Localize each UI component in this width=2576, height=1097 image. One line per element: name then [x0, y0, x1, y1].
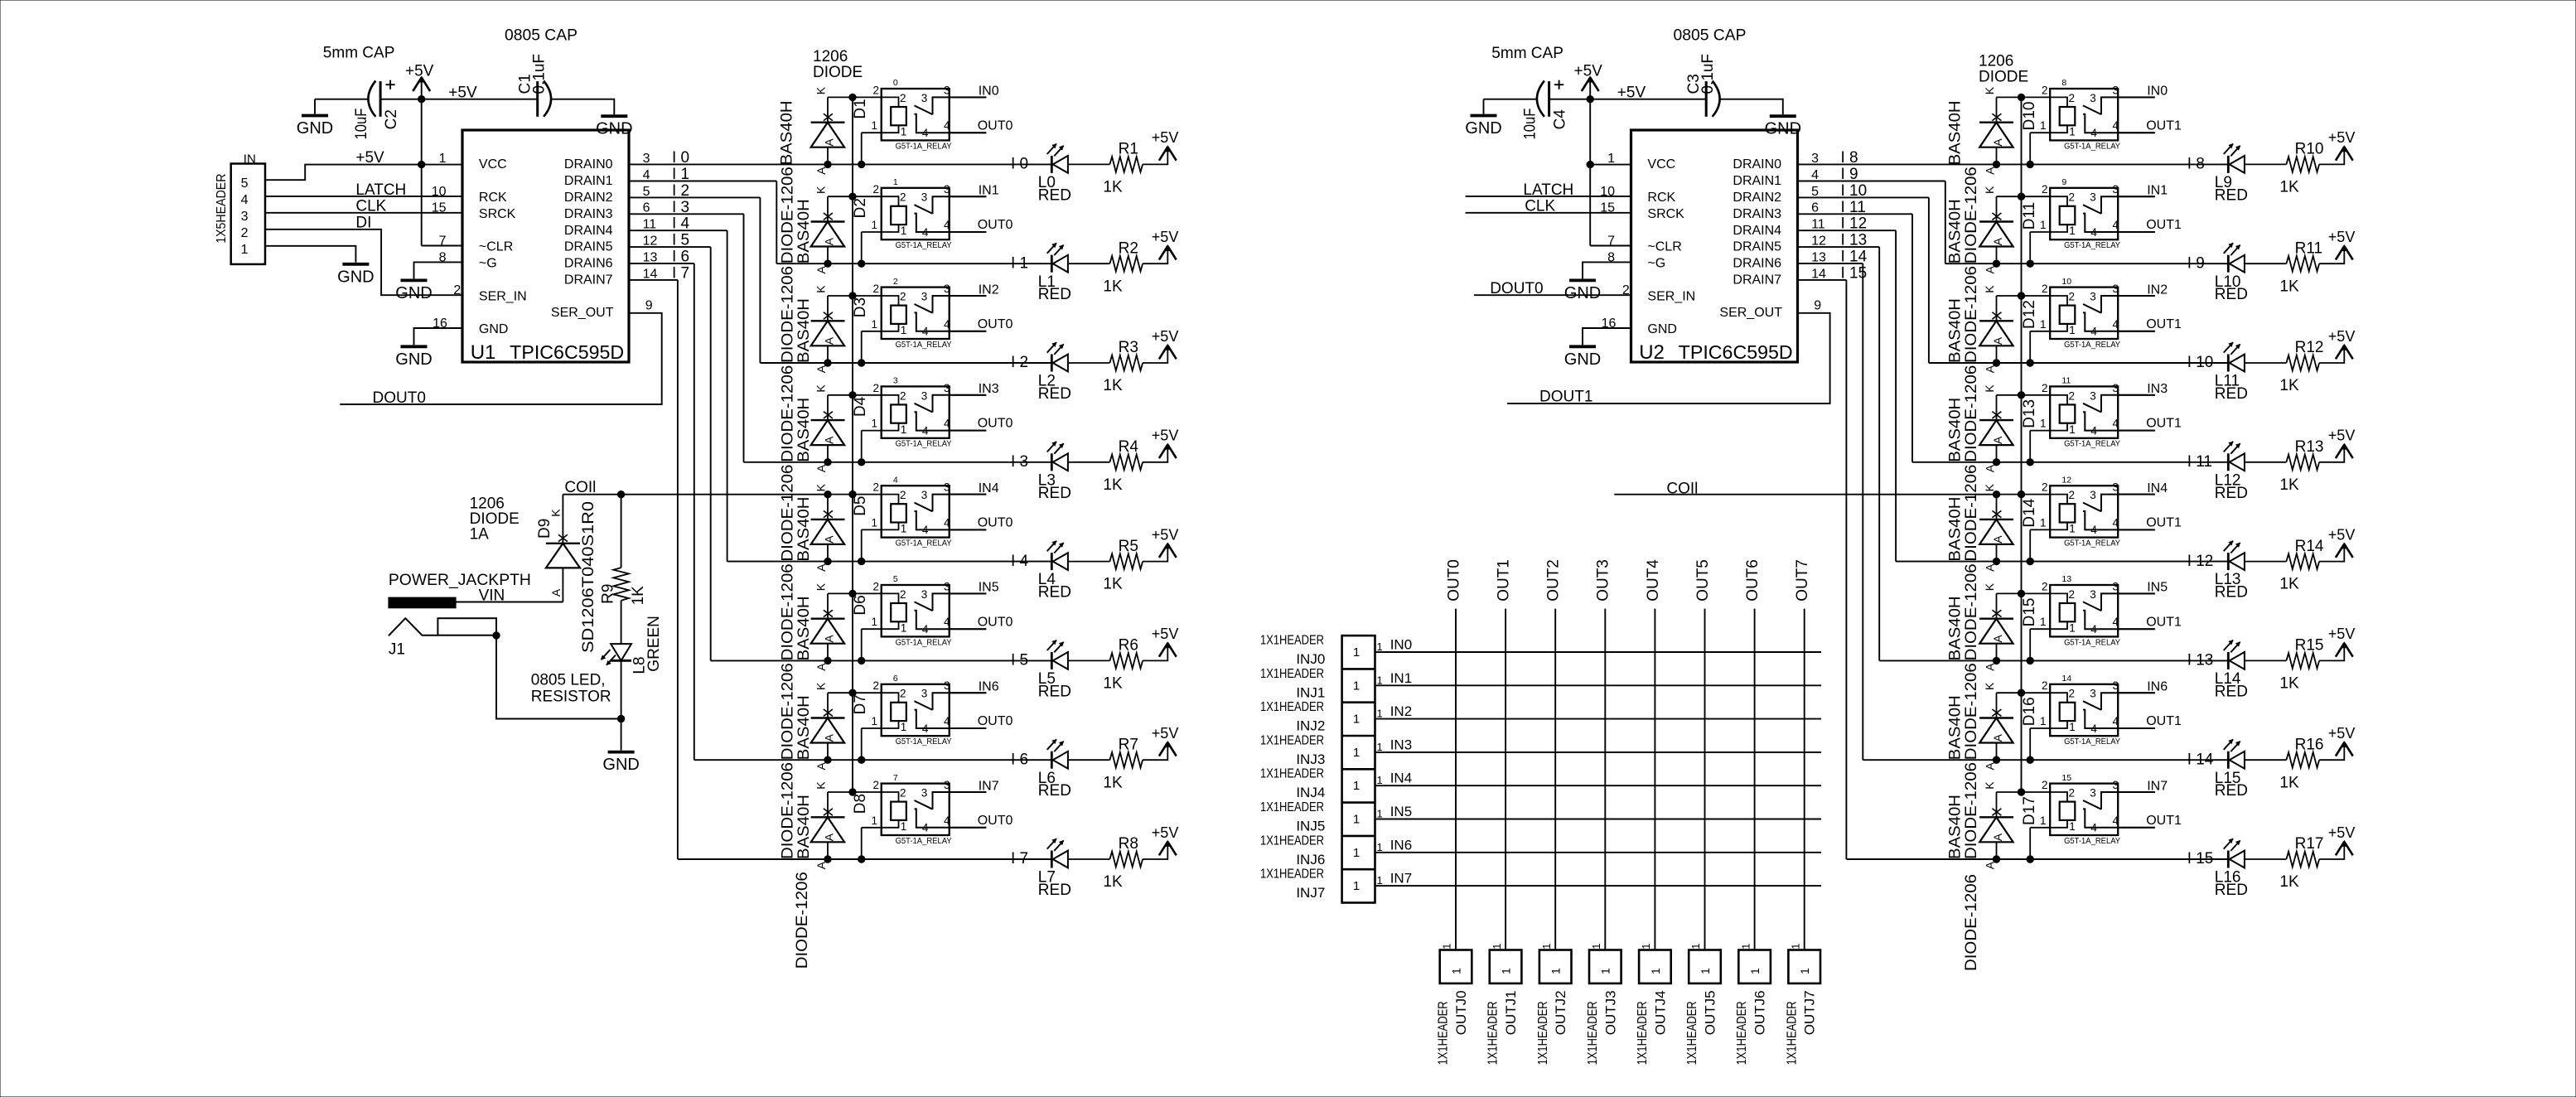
- svg-text:COIl: COIl: [564, 479, 596, 496]
- node +5V at VCC line: [418, 161, 425, 167]
- svg-text:7: 7: [1607, 234, 1615, 249]
- svg-text:1: 1: [1640, 944, 1652, 950]
- LED L10 with resistor R11 to +5V: [2215, 229, 2356, 303]
- svg-text:1: 1: [1491, 944, 1503, 950]
- wire OUT1 relay contact: [2118, 827, 2155, 829]
- wire drain net I 2: [629, 196, 760, 198]
- connector 1X1HEADER OUTJ4: [1639, 950, 1671, 983]
- svg-text:BAS40H: BAS40H: [795, 497, 813, 562]
- svg-text:L4: L4: [1038, 571, 1056, 588]
- svg-text:I 5: I 5: [1011, 652, 1028, 669]
- svg-text:1: 1: [1377, 874, 1383, 887]
- svg-text:~G: ~G: [479, 257, 497, 271]
- wire COIL right segment: [1614, 494, 1996, 495]
- diode D6 with relay 5: [811, 580, 987, 670]
- svg-text:DIODE-1206: DIODE-1206: [1963, 365, 1980, 462]
- svg-text:8: 8: [2061, 78, 2066, 88]
- diode D8 with relay 7: [811, 779, 987, 869]
- svg-text:L12: L12: [2215, 471, 2241, 489]
- svg-text:0805 CAP: 0805 CAP: [505, 27, 578, 44]
- svg-text:DIODE-1206: DIODE-1206: [794, 872, 811, 969]
- svg-text:1X1HEADER: 1X1HEADER: [1586, 1001, 1600, 1065]
- power +5V arrow left: [421, 78, 423, 99]
- capacitor C2 10uF polarized: [368, 80, 394, 117]
- svg-text:I 2: I 2: [672, 182, 689, 200]
- svg-text:IN4: IN4: [979, 481, 999, 495]
- wire U2 ~G stub to ground: [1583, 262, 1631, 278]
- LED L13 with resistor R14 to +5V: [2215, 526, 2356, 601]
- node COIL at right diode column: [1993, 491, 1999, 498]
- svg-text:IN5: IN5: [2147, 581, 2168, 595]
- svg-text:1X1HEADER: 1X1HEADER: [1735, 1001, 1749, 1065]
- LED L6 with resistor R7 to +5V: [1038, 725, 1179, 800]
- svg-text:1K: 1K: [630, 586, 647, 606]
- svg-text:IN2: IN2: [1390, 703, 1412, 719]
- wire OUT1 relay contact: [2118, 628, 2155, 630]
- svg-text:I 3: I 3: [672, 199, 689, 216]
- svg-text:R12: R12: [2295, 339, 2324, 356]
- svg-text:R6: R6: [1119, 637, 1138, 655]
- svg-text:I 14: I 14: [2187, 751, 2214, 768]
- svg-text:I 8: I 8: [1841, 149, 1858, 167]
- wire OUT0 relay contact: [950, 331, 987, 332]
- svg-text:1X1HEADER: 1X1HEADER: [1260, 767, 1324, 781]
- wire LATCH to U2 RCK: [1466, 196, 1631, 197]
- svg-text:1: 1: [1353, 713, 1360, 727]
- svg-text:11: 11: [1811, 218, 1825, 232]
- svg-text:OUT0: OUT0: [978, 218, 1013, 232]
- svg-text:GND: GND: [479, 322, 509, 336]
- svg-text:IN1: IN1: [979, 184, 999, 198]
- wire IN5 matrix row: [1375, 819, 1822, 820]
- svg-text:SER_IN: SER_IN: [479, 289, 527, 303]
- svg-text:1A: 1A: [470, 526, 490, 544]
- svg-text:OUT6: OUT6: [1744, 559, 1762, 602]
- svg-text:10uF: 10uF: [353, 109, 370, 140]
- svg-text:SER_IN: SER_IN: [1647, 289, 1695, 303]
- wire OUT1 relay contact: [2118, 430, 2155, 432]
- svg-text:L13: L13: [2215, 571, 2241, 588]
- svg-text:BAS40H: BAS40H: [795, 795, 813, 859]
- LED L16 with resistor R17 to +5V: [2215, 824, 2356, 899]
- svg-text:OUT7: OUT7: [1794, 559, 1811, 602]
- svg-text:L0: L0: [1038, 174, 1056, 191]
- svg-text:OUTJ6: OUTJ6: [1752, 990, 1768, 1035]
- svg-text:D7: D7: [852, 694, 869, 714]
- svg-text:1X1HEADER: 1X1HEADER: [1260, 867, 1324, 882]
- svg-text:0805 LED,: 0805 LED,: [531, 671, 606, 689]
- svg-text:1: 1: [1353, 746, 1360, 760]
- svg-text:2: 2: [893, 277, 898, 287]
- svg-text:D1: D1: [852, 99, 869, 118]
- svg-text:DRAIN2: DRAIN2: [1733, 191, 1781, 205]
- wire drain net I 11: [1798, 213, 1913, 215]
- svg-text:1: 1: [893, 177, 898, 187]
- svg-text:IN7: IN7: [1390, 871, 1412, 887]
- wire OUT1 relay contact: [2118, 132, 2155, 133]
- svg-text:DRAIN6: DRAIN6: [1733, 257, 1781, 271]
- svg-text:IN7: IN7: [2147, 779, 2168, 793]
- wire ~CLR stub: [422, 245, 462, 247]
- svg-text:0.1uF: 0.1uF: [530, 54, 548, 94]
- svg-text:6: 6: [1811, 201, 1819, 215]
- svg-text:+5V: +5V: [405, 63, 434, 80]
- svg-text:L9: L9: [2215, 174, 2232, 191]
- wire IN6 relay contact: [2118, 692, 2155, 693]
- wire OUT0 relay contact: [950, 827, 987, 829]
- svg-text:I 6: I 6: [1011, 751, 1028, 768]
- svg-text:OUT1: OUT1: [2146, 118, 2182, 133]
- svg-text:R16: R16: [2295, 736, 2324, 753]
- svg-text:INJ5: INJ5: [1296, 819, 1325, 834]
- wire CLK to U2 SRCK: [1466, 212, 1631, 214]
- svg-text:DIODE-1206: DIODE-1206: [1963, 465, 1980, 562]
- wire IN1 matrix row: [1375, 684, 1822, 686]
- wire OUT0 relay contact: [950, 727, 987, 729]
- pad POWER jack: [389, 597, 456, 608]
- svg-text:GND: GND: [1647, 322, 1677, 336]
- svg-text:IN6: IN6: [1390, 837, 1412, 853]
- svg-text:R11: R11: [2295, 239, 2322, 257]
- svg-text:DIODE-1206: DIODE-1206: [780, 465, 797, 562]
- svg-text:14: 14: [1811, 267, 1826, 281]
- svg-text:1X1HEADER: 1X1HEADER: [1260, 700, 1324, 714]
- svg-text:5mm CAP: 5mm CAP: [323, 44, 395, 61]
- ground GND header pin1: [337, 264, 374, 287]
- svg-text:L10: L10: [2215, 273, 2241, 291]
- LED L0 with resistor R1 to +5V: [1038, 129, 1179, 204]
- connector 1X1HEADER OUTJ6: [1738, 950, 1771, 983]
- diode D3 with relay 2: [811, 283, 987, 373]
- wire VIN to D9 anode: [456, 602, 563, 603]
- wire IN3 matrix row: [1375, 751, 1822, 753]
- LED L4 with resistor R5 to +5V: [1038, 526, 1179, 601]
- svg-text:4: 4: [643, 168, 650, 182]
- svg-text:1X1HEADER: 1X1HEADER: [1785, 1001, 1799, 1065]
- wire IN1 relay contact: [2118, 196, 2155, 197]
- svg-text:OUT0: OUT0: [978, 417, 1013, 431]
- svg-text:15: 15: [1600, 201, 1615, 215]
- svg-text:9: 9: [645, 298, 653, 312]
- svg-text:13: 13: [2061, 574, 2071, 584]
- svg-text:BAS40H: BAS40H: [1946, 497, 1964, 562]
- svg-text:I 7: I 7: [672, 264, 689, 282]
- LED L1 with resistor R2 to +5V: [1038, 229, 1179, 303]
- LED L15 with resistor R16 to +5V: [2215, 725, 2356, 800]
- svg-text:D12: D12: [2021, 300, 2038, 329]
- svg-text:0: 0: [893, 78, 898, 88]
- wire IN5 relay contact: [950, 592, 987, 594]
- LED L14 with resistor R15 to +5V: [2215, 626, 2356, 700]
- svg-text:L14: L14: [2215, 670, 2241, 688]
- LED L3 with resistor R4 to +5V: [1038, 428, 1179, 502]
- wire drain net I 5: [629, 246, 711, 248]
- svg-text:D15: D15: [2021, 598, 2038, 627]
- wire IN6 matrix row: [1375, 852, 1822, 853]
- svg-text:DRAIN0: DRAIN0: [564, 157, 613, 172]
- svg-text:9: 9: [1814, 298, 1821, 312]
- svg-text:2: 2: [453, 283, 461, 297]
- svg-text:IN: IN: [244, 152, 256, 166]
- diode D14 with relay 12: [1979, 481, 2155, 572]
- LED L2 with resistor R3 to +5V: [1038, 328, 1179, 403]
- svg-text:1X1HEADER: 1X1HEADER: [1536, 1001, 1550, 1065]
- svg-text:DRAIN3: DRAIN3: [564, 207, 613, 221]
- svg-text:DI: DI: [355, 214, 371, 231]
- wire IN7 relay contact: [950, 791, 987, 793]
- svg-text:K: K: [549, 509, 562, 517]
- svg-text:L16: L16: [2215, 869, 2241, 887]
- svg-text:R14: R14: [2295, 538, 2324, 555]
- diode D11 with relay 9: [1979, 183, 2155, 273]
- wire IN2 matrix row: [1375, 718, 1822, 720]
- wire IN0 matrix row: [1375, 651, 1822, 653]
- svg-text:I 0: I 0: [672, 149, 689, 167]
- svg-text:DRAIN4: DRAIN4: [564, 224, 613, 238]
- svg-text:L5: L5: [1038, 670, 1056, 688]
- svg-text:1: 1: [1377, 708, 1383, 720]
- IC U2 TPIC6C595D: [1631, 130, 1798, 362]
- svg-text:1: 1: [1353, 846, 1360, 860]
- wire OUT7 matrix column: [1804, 609, 1805, 950]
- svg-text:5: 5: [893, 574, 898, 584]
- svg-text:A: A: [549, 588, 563, 597]
- wire drain net I 4: [629, 230, 727, 231]
- svg-text:IN3: IN3: [979, 382, 999, 396]
- svg-text:D10: D10: [2021, 102, 2038, 131]
- svg-text:15: 15: [432, 201, 447, 215]
- svg-text:DRAIN6: DRAIN6: [564, 257, 613, 271]
- svg-text:DRAIN1: DRAIN1: [1733, 174, 1781, 188]
- wire drain net I 3: [629, 213, 744, 215]
- svg-text:DIODE-1206: DIODE-1206: [1963, 266, 1980, 363]
- svg-text:RCK: RCK: [479, 191, 507, 205]
- svg-text:INJ6: INJ6: [1296, 852, 1325, 867]
- svg-text:I 12: I 12: [1841, 215, 1868, 233]
- svg-text:6: 6: [893, 674, 898, 684]
- diode D2 with relay 1: [811, 183, 987, 273]
- wire IN4 relay contact: [950, 494, 987, 495]
- svg-text:OUT1: OUT1: [2146, 714, 2182, 728]
- svg-text:D3: D3: [852, 297, 869, 317]
- svg-text:D5: D5: [852, 496, 869, 516]
- svg-text:1: 1: [241, 243, 249, 257]
- svg-text:IN4: IN4: [2147, 481, 2168, 495]
- svg-text:R9: R9: [599, 584, 616, 604]
- wire drain net I 6: [629, 263, 694, 264]
- svg-text:I 10: I 10: [2187, 354, 2214, 371]
- svg-text:10uF: 10uF: [1521, 109, 1539, 140]
- svg-text:RCK: RCK: [1647, 191, 1675, 205]
- svg-text:BAS40H: BAS40H: [795, 298, 813, 363]
- svg-text:R7: R7: [1119, 736, 1138, 753]
- svg-text:INJ1: INJ1: [1296, 684, 1325, 700]
- IC U1 TPIC6C595D: [462, 130, 629, 362]
- diode D15 with relay 13: [1979, 580, 2155, 670]
- svg-text:TPIC6C595D: TPIC6C595D: [1679, 341, 1793, 363]
- svg-text:11: 11: [643, 218, 657, 232]
- svg-text:SRCK: SRCK: [479, 207, 516, 221]
- svg-text:CLK: CLK: [355, 198, 386, 215]
- svg-text:4: 4: [241, 193, 249, 207]
- svg-text:R8: R8: [1119, 835, 1138, 853]
- svg-text:COIl: COIl: [1666, 481, 1698, 498]
- svg-text:DIODE-1206: DIODE-1206: [780, 266, 797, 363]
- svg-text:I 0: I 0: [1011, 156, 1028, 173]
- capacitor C3 0.1uF: [1706, 81, 1719, 117]
- wire OUT0 matrix column: [1455, 609, 1457, 950]
- svg-text:IN7: IN7: [979, 779, 999, 793]
- svg-text:9: 9: [2061, 177, 2066, 187]
- svg-text:1: 1: [1353, 645, 1360, 660]
- svg-text:1: 1: [1377, 741, 1383, 753]
- wire OUT0 relay contact: [950, 132, 987, 133]
- ground GND under C1: [596, 116, 632, 138]
- svg-text:I 3: I 3: [1011, 453, 1028, 471]
- svg-text:OUT0: OUT0: [978, 317, 1013, 331]
- svg-text:DIODE: DIODE: [813, 64, 863, 81]
- svg-text:IN1: IN1: [1390, 670, 1412, 686]
- svg-text:DIODE-1206: DIODE-1206: [780, 365, 797, 462]
- svg-text:1: 1: [1540, 944, 1553, 950]
- svg-text:~CLR: ~CLR: [479, 240, 513, 254]
- svg-text:5mm CAP: 5mm CAP: [1491, 45, 1563, 62]
- svg-text:R1: R1: [1119, 141, 1138, 158]
- svg-text:1: 1: [1377, 841, 1383, 853]
- svg-text:OUT3: OUT3: [1595, 559, 1612, 602]
- svg-text:DIODE: DIODE: [1979, 69, 2028, 86]
- wire +5V vertical to U2 ~CLR: [1589, 99, 1591, 246]
- svg-text:10: 10: [2061, 277, 2071, 287]
- wire U2 ~CLR stub: [1590, 245, 1631, 247]
- node +5V junction right rail: [1587, 96, 1593, 103]
- svg-text:TPIC6C595D: TPIC6C595D: [510, 341, 624, 363]
- svg-text:POWER_JACKPTH: POWER_JACKPTH: [389, 572, 531, 589]
- wire OUT1 relay contact: [2118, 529, 2155, 530]
- svg-text:D6: D6: [852, 595, 869, 615]
- wire drain net I 0: [629, 163, 1051, 165]
- svg-text:U1: U1: [471, 341, 496, 364]
- svg-text:D11: D11: [2021, 202, 2038, 230]
- node COIL tap for R9: [617, 491, 624, 498]
- diode D13 with relay 11: [1979, 382, 2155, 472]
- wire COIL bus vertical right: [2021, 97, 2023, 792]
- LED L8 GREEN: [621, 601, 622, 644]
- svg-text:OUT1: OUT1: [2146, 814, 2182, 828]
- wire DI header pin2 to U1 SER_IN: [265, 230, 462, 295]
- wire IN4 relay contact: [2118, 494, 2155, 495]
- wire IN0 relay contact: [950, 96, 987, 98]
- capacitor C4 10uF polarized: [1537, 80, 1563, 117]
- svg-text:BAS40H: BAS40H: [795, 199, 813, 263]
- svg-text:1: 1: [1353, 779, 1360, 793]
- svg-text:R3: R3: [1119, 339, 1138, 356]
- svg-text:BAS40H: BAS40H: [779, 100, 796, 165]
- svg-text:1X1HEADER: 1X1HEADER: [1437, 1001, 1451, 1065]
- svg-text:1X1HEADER: 1X1HEADER: [1260, 634, 1324, 648]
- svg-text:10: 10: [432, 185, 447, 199]
- svg-text:OUTJ7: OUTJ7: [1802, 990, 1818, 1035]
- wire +5V vertical to ~CLR: [421, 99, 423, 246]
- diode D1 with relay 0: [811, 84, 987, 174]
- svg-text:SER_OUT: SER_OUT: [551, 306, 614, 320]
- power +5V arrow right: [1589, 78, 1591, 99]
- svg-text:IN0: IN0: [2147, 85, 2168, 99]
- LED L11 with resistor R12 to +5V: [2215, 328, 2356, 403]
- svg-text:I 2: I 2: [1011, 354, 1028, 371]
- wire +5V to U2 VCC: [1590, 164, 1631, 166]
- svg-text:1X1HEADER: 1X1HEADER: [1260, 733, 1324, 747]
- svg-text:5: 5: [241, 176, 249, 191]
- svg-text:J1: J1: [389, 640, 405, 658]
- svg-text:11: 11: [2061, 376, 2071, 386]
- svg-text:12: 12: [1811, 234, 1826, 249]
- wire OUT0 relay contact: [950, 529, 987, 530]
- wire +5V from header pin 5 to U1 VCC: [265, 165, 462, 181]
- svg-text:IN6: IN6: [979, 680, 999, 694]
- wire OUT1 relay contact: [2118, 231, 2155, 233]
- wire J1 sleeve to ground rail: [496, 635, 621, 719]
- wire drain net I 12: [1798, 230, 1897, 231]
- svg-text:R13: R13: [2295, 438, 2324, 456]
- svg-text:OUT1: OUT1: [2146, 317, 2182, 331]
- svg-text:SRCK: SRCK: [1647, 207, 1684, 221]
- svg-text:U2: U2: [1639, 341, 1665, 364]
- svg-text:L11: L11: [2215, 373, 2240, 390]
- svg-text:BAS40H: BAS40H: [1946, 398, 1964, 462]
- svg-text:INJ0: INJ0: [1296, 651, 1325, 667]
- wire OUT5 matrix column: [1704, 609, 1706, 950]
- wire CLK header pin3 to U1 SRCK: [265, 212, 462, 214]
- svg-text:BAS40H: BAS40H: [795, 596, 813, 660]
- node COIL at D5 anode column: [824, 491, 831, 498]
- svg-text:1X1HEADER: 1X1HEADER: [1636, 1001, 1650, 1065]
- wire OUT0 relay contact: [950, 628, 987, 630]
- diode D7 with relay 6: [811, 679, 987, 770]
- ground GND at U1 pin16: [395, 346, 432, 369]
- svg-text:IN2: IN2: [979, 283, 999, 297]
- diode D12 with relay 10: [1979, 283, 2155, 373]
- wire drain net I 14: [1798, 263, 1863, 264]
- LED L12 with resistor R13 to +5V: [2215, 428, 2356, 502]
- wire IN0 relay contact: [2118, 96, 2155, 98]
- wire GND pin16 stub: [414, 328, 463, 345]
- svg-text:INJ2: INJ2: [1296, 718, 1325, 734]
- svg-text:DOUT0: DOUT0: [1490, 280, 1543, 297]
- svg-text:CLK: CLK: [1525, 198, 1555, 215]
- svg-text:5: 5: [1811, 185, 1819, 199]
- svg-text:OUT2: OUT2: [1545, 559, 1563, 602]
- svg-text:I 11: I 11: [1841, 199, 1866, 216]
- diode D9 SD1206T040S1R0: [562, 568, 563, 602]
- svg-text:OUTJ5: OUTJ5: [1703, 990, 1718, 1035]
- svg-text:13: 13: [643, 250, 658, 264]
- svg-text:D9: D9: [536, 519, 553, 539]
- svg-text:INJ7: INJ7: [1296, 885, 1325, 901]
- svg-text:1: 1: [1689, 944, 1702, 950]
- svg-text:L3: L3: [1038, 471, 1056, 489]
- svg-text:+5V: +5V: [448, 85, 477, 102]
- svg-text:~CLR: ~CLR: [1647, 240, 1681, 254]
- svg-text:I 9: I 9: [1841, 166, 1858, 183]
- svg-text:+5V: +5V: [1574, 63, 1603, 80]
- svg-text:I 4: I 4: [672, 215, 690, 233]
- svg-text:I 15: I 15: [1841, 264, 1868, 282]
- wire IN3 relay contact: [950, 394, 987, 396]
- node +5V at U2 VCC line: [1587, 161, 1593, 167]
- svg-text:R2: R2: [1119, 239, 1138, 257]
- svg-text:1X5HEADER: 1X5HEADER: [215, 173, 229, 243]
